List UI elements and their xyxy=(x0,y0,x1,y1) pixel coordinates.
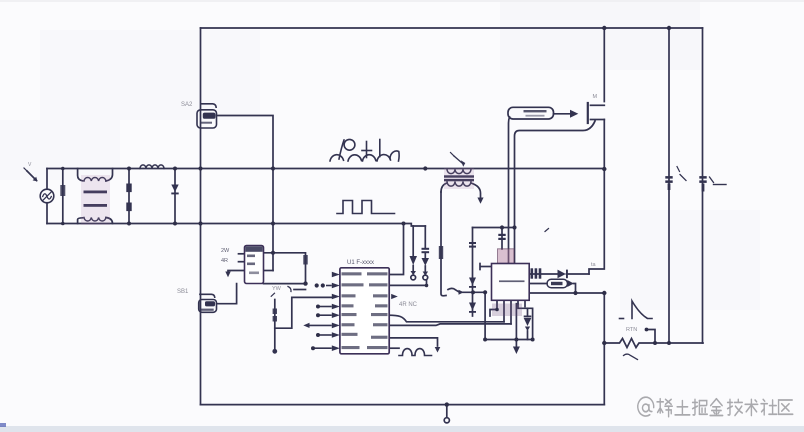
svg-text:4R: 4R xyxy=(221,258,228,264)
svg-text:SA2: SA2 xyxy=(181,102,193,108)
svg-text:RTN: RTN xyxy=(626,327,637,333)
svg-text:M: M xyxy=(593,94,598,100)
svg-text:U1 F-xxxx: U1 F-xxxx xyxy=(347,260,374,266)
svg-text:SB1: SB1 xyxy=(177,289,189,295)
svg-text:2W: 2W xyxy=(221,248,230,254)
svg-text:4R NC: 4R NC xyxy=(399,302,418,308)
svg-text:YW: YW xyxy=(272,286,282,292)
